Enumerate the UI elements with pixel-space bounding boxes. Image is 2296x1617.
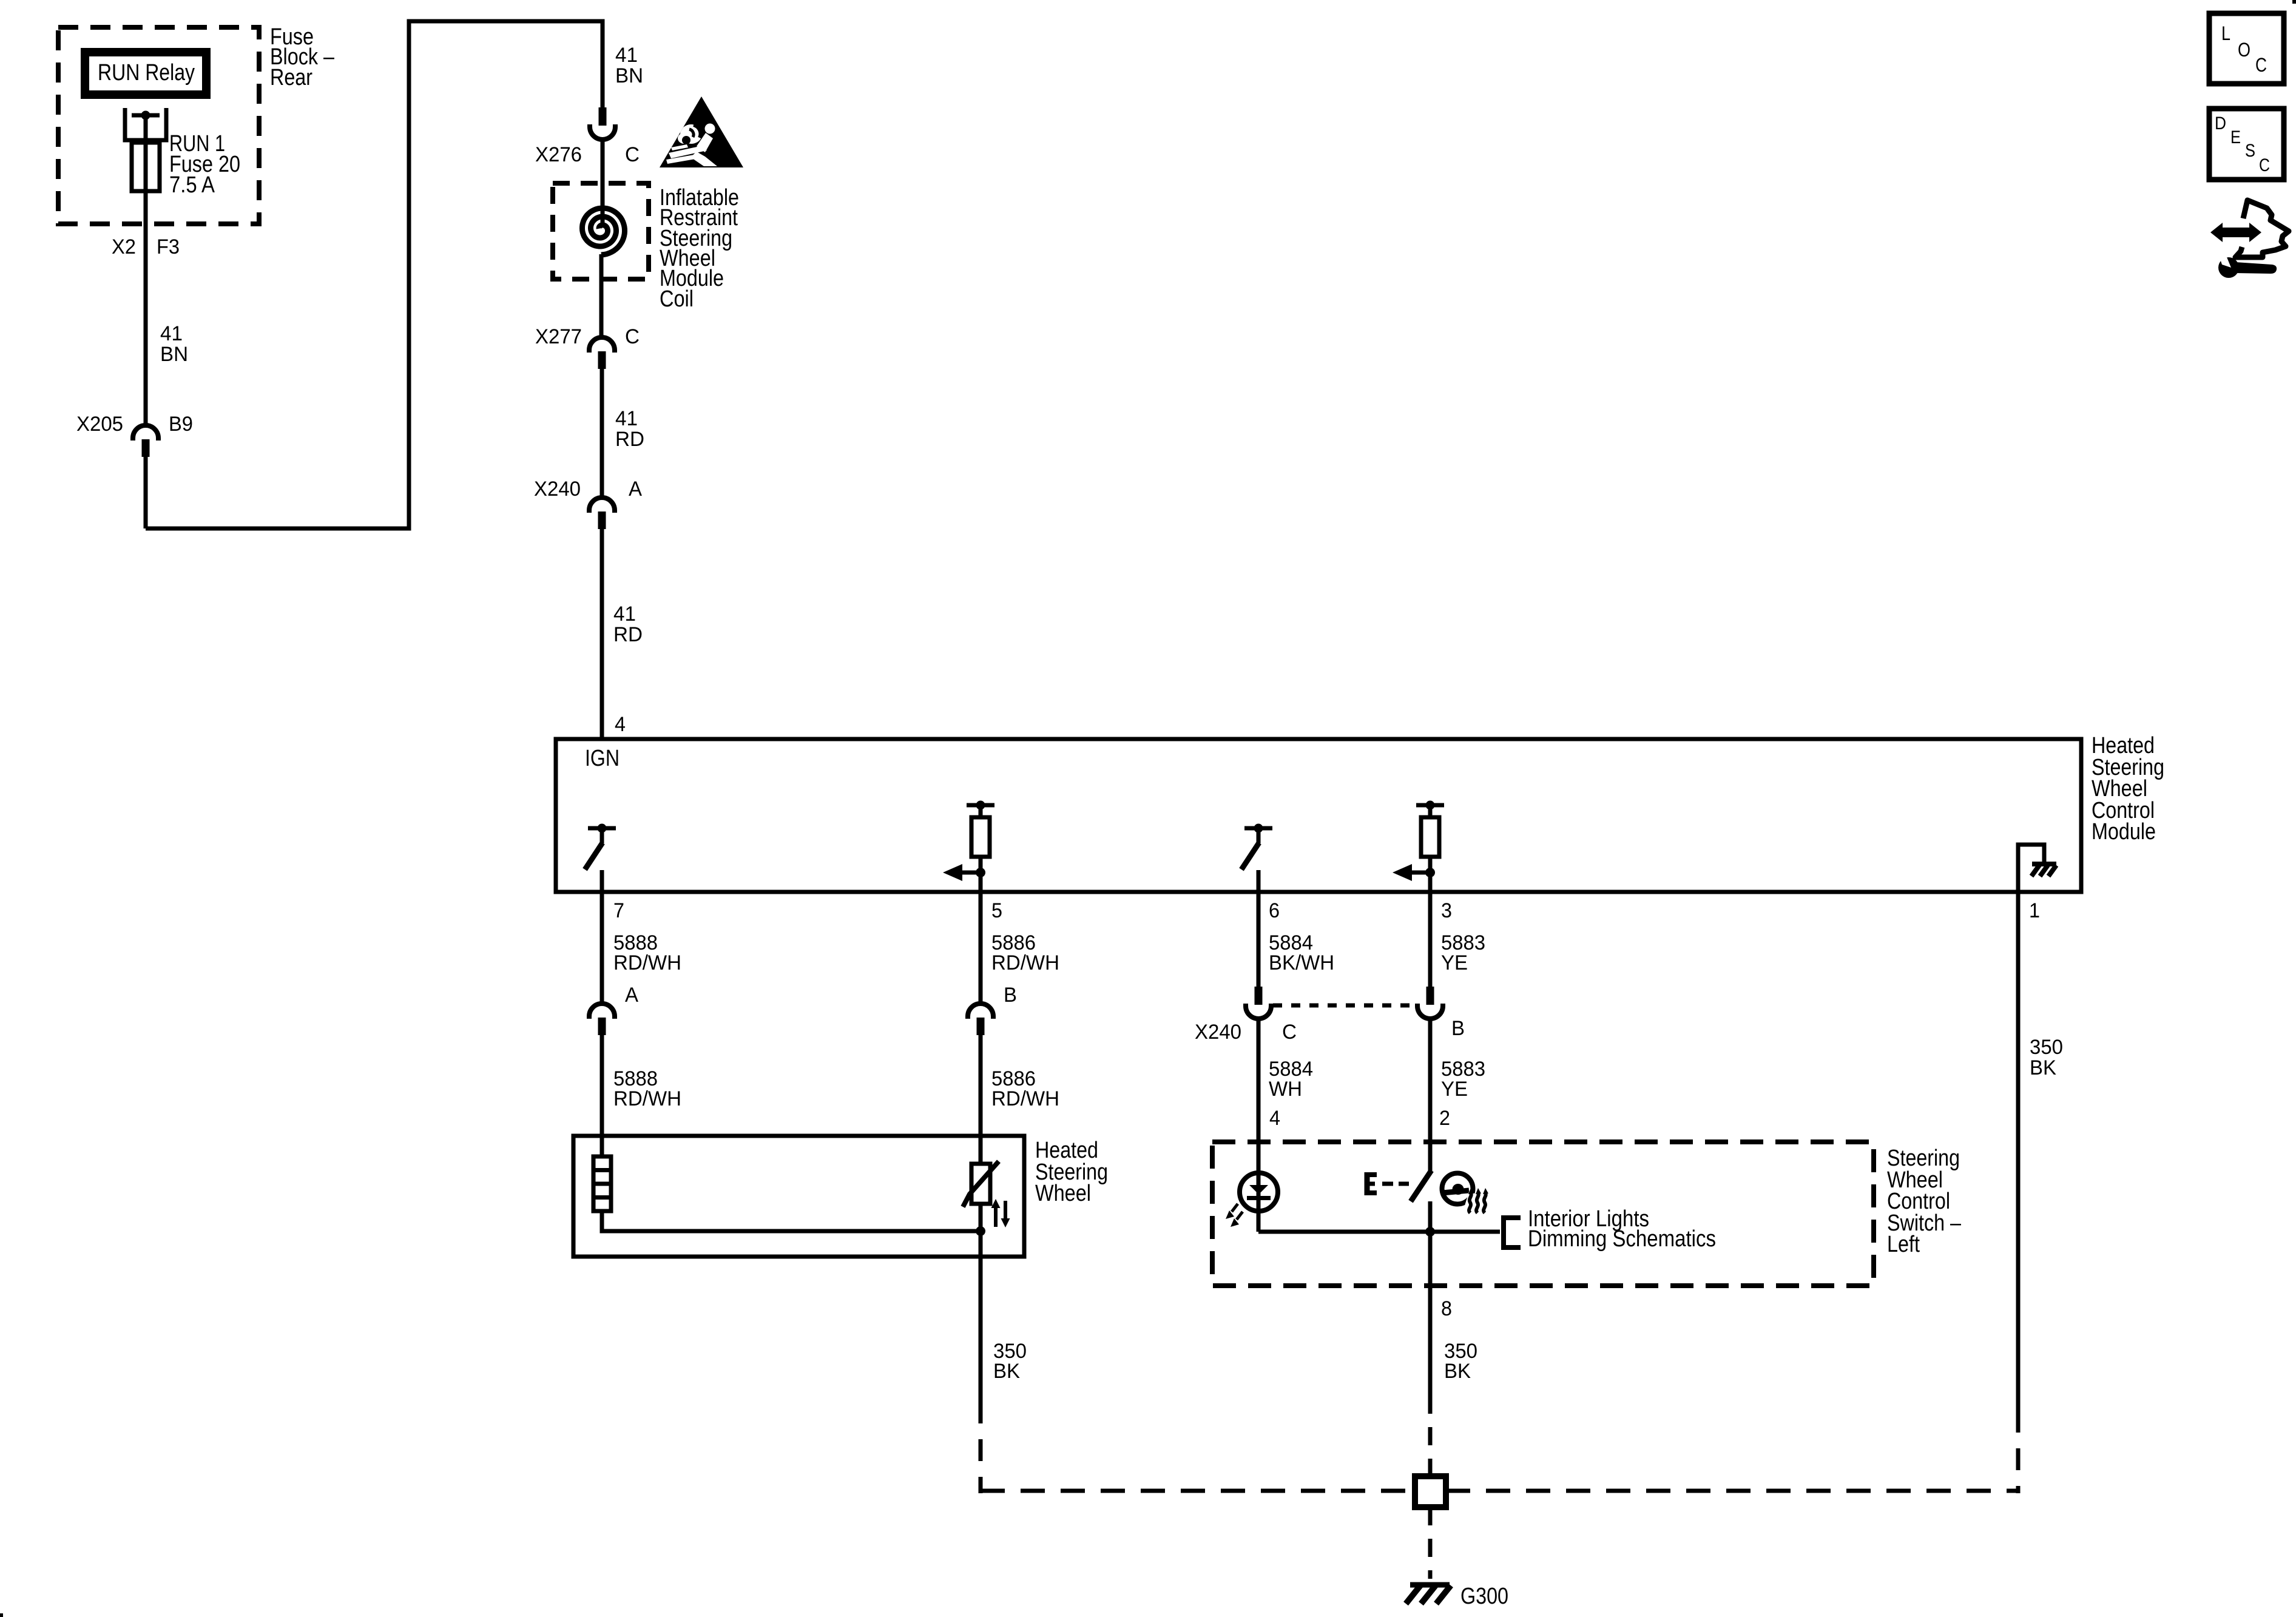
connector X240 A (589, 498, 615, 529)
svg-text:RD/WH: RD/WH (991, 951, 1059, 974)
svg-text:B9: B9 (169, 413, 193, 436)
relay output terminal cup (125, 108, 166, 140)
svg-text:S: S (2245, 141, 2255, 161)
svg-text:C: C (1282, 1021, 1297, 1044)
wire X205 down-across-up to X276 (144, 457, 148, 528)
switch to pin 8 wire (1428, 1201, 1433, 1286)
module internal switch (pin 6 output) (1241, 824, 1272, 870)
coil dashed box (553, 183, 649, 279)
svg-text:Dimming Schematics: Dimming Schematics (1528, 1226, 1716, 1252)
clockspring spiral (582, 208, 625, 255)
svg-text:RD/WH: RD/WH (613, 1087, 681, 1110)
svg-text:BK/WH: BK/WH (1269, 951, 1334, 974)
pin 3 wire (1428, 857, 1433, 987)
relay terminal T-bar with junction dot (132, 113, 160, 118)
pin 7 wire (600, 870, 604, 1003)
junction dot (1425, 1227, 1435, 1237)
svg-text:BN: BN (160, 343, 188, 366)
module internal ground (pin 1) (2018, 845, 2056, 892)
svg-text:C: C (625, 143, 640, 166)
svg-text:7: 7 (613, 899, 624, 922)
fuse RUN 1 / Fuse 20 / 7.5 A (132, 143, 160, 191)
svg-text:C: C (2255, 54, 2267, 76)
wire coil to X277 (599, 254, 604, 337)
wire X277 to X240 (600, 368, 604, 498)
svg-text:IGN: IGN (585, 746, 620, 771)
internal wire heater to thermistor (602, 1211, 981, 1231)
svg-text:X277: X277 (535, 325, 582, 348)
fuse block - rear dashed box (58, 27, 259, 224)
X240 dashed connector link (1273, 1004, 1416, 1008)
svg-text:L: L (2221, 22, 2230, 44)
connector A heated steering wheel (589, 1004, 615, 1035)
airbag warning triangle (660, 96, 743, 167)
pin 6 wire (1257, 870, 1261, 987)
connector B heated steering wheel (968, 1004, 993, 1035)
pin 8 wire below box (1428, 1286, 1433, 1396)
svg-text:Left: Left (1887, 1232, 1920, 1257)
DESC icon (2209, 109, 2284, 180)
svg-text:B: B (1004, 984, 1017, 1007)
svg-text:G300: G300 (1460, 1584, 1508, 1609)
up/down arrows (991, 1199, 1010, 1227)
wire into coil (601, 140, 605, 227)
off-page reference bracket (1504, 1218, 1521, 1247)
svg-text:C: C (2259, 155, 2270, 175)
svg-text:Rear: Rear (270, 65, 312, 90)
indicator LED (1226, 1173, 1278, 1227)
svg-text:3: 3 (1441, 899, 1452, 922)
heated steering wheel control module box (556, 739, 2081, 892)
svg-text:A: A (625, 984, 638, 1007)
thermistor wire down 350 BK (979, 1204, 983, 1402)
LOC icon (2209, 13, 2284, 84)
thermistor (963, 1161, 999, 1207)
module internal driver (pin 3 output) (1393, 801, 1444, 893)
svg-text:RUN Relay: RUN Relay (98, 60, 195, 86)
svg-text:D: D (2215, 113, 2226, 133)
connector X277 C (589, 337, 615, 369)
steering wheel control switch - left dashed box (1212, 1142, 1874, 1286)
connector X276 C (590, 107, 615, 140)
svg-text:YE: YE (1441, 951, 1468, 974)
pin 5 wire (979, 857, 983, 1003)
svg-text:4: 4 (615, 713, 626, 736)
svg-text:41: 41 (615, 44, 638, 67)
wire relay through fuse (144, 115, 148, 425)
svg-text:A: A (629, 478, 642, 501)
svg-text:BK: BK (1444, 1360, 1471, 1383)
connector X240 B (1417, 987, 1443, 1019)
svg-text:C: C (625, 325, 640, 348)
svg-text:2: 2 (1439, 1107, 1450, 1130)
svg-text:4: 4 (1269, 1107, 1280, 1130)
LED wire to junction (1258, 1230, 1500, 1234)
heated steering wheel box (573, 1136, 1024, 1257)
svg-text:41: 41 (613, 603, 636, 626)
svg-text:F3: F3 (157, 235, 180, 258)
svg-text:RD/WH: RD/WH (991, 1087, 1059, 1110)
switch actuator E and dashed link (1365, 1172, 1409, 1195)
svg-text:Wheel: Wheel (1035, 1181, 1091, 1206)
svg-text:5: 5 (991, 899, 1002, 922)
heater element (593, 1156, 611, 1211)
svg-text:41: 41 (615, 407, 638, 430)
svg-text:RD: RD (613, 623, 643, 646)
wire X240 to module pin 4 (600, 528, 604, 739)
steering wheel heat icon (1442, 1173, 1489, 1214)
svg-text:X276: X276 (535, 143, 582, 166)
wires down to components (600, 1035, 604, 1156)
connector X205 terminal B9 (133, 425, 158, 457)
svg-text:7.5 A: 7.5 A (169, 172, 215, 198)
svg-text:Module: Module (2092, 819, 2156, 845)
ground bus dashed wires (981, 1489, 1415, 1493)
svg-text:Coil: Coil (660, 286, 694, 312)
svg-text:X240: X240 (1195, 1021, 1241, 1044)
svg-text:X205: X205 (76, 413, 123, 436)
svg-text:BK: BK (2030, 1056, 2056, 1079)
svg-text:8: 8 (1441, 1297, 1452, 1320)
module internal switch (pin 7 output) (585, 824, 616, 870)
heated wheel switch blade (1411, 1170, 1431, 1201)
ground G300 (1406, 1585, 1451, 1604)
svg-text:X240: X240 (534, 478, 581, 501)
svg-text:O: O (2238, 39, 2250, 61)
connector X240 C (1246, 987, 1271, 1019)
splice to ground dashed (1428, 1507, 1433, 1579)
svg-text:B: B (1451, 1017, 1465, 1040)
svg-text:YE: YE (1441, 1078, 1468, 1101)
svg-text:350: 350 (2030, 1036, 2063, 1059)
svg-text:41: 41 (160, 322, 183, 345)
pin 1 wire 350 BK (2016, 892, 2021, 1411)
page corner marks (2292, 0, 2296, 4)
svg-text:RD/WH: RD/WH (613, 951, 681, 974)
svg-text:BN: BN (615, 64, 643, 87)
adjust/repair icon (2210, 200, 2289, 278)
module internal driver (pin 5 output) (943, 801, 994, 893)
svg-text:X2: X2 (112, 235, 136, 258)
svg-text:RD: RD (615, 428, 644, 451)
svg-text:WH: WH (1269, 1078, 1302, 1101)
svg-text:E: E (2230, 127, 2241, 147)
svg-text:6: 6 (1269, 899, 1280, 922)
RUN Relay box (85, 52, 206, 95)
splice (1415, 1476, 1446, 1507)
svg-text:1: 1 (2029, 899, 2040, 922)
svg-text:BK: BK (993, 1360, 1020, 1383)
